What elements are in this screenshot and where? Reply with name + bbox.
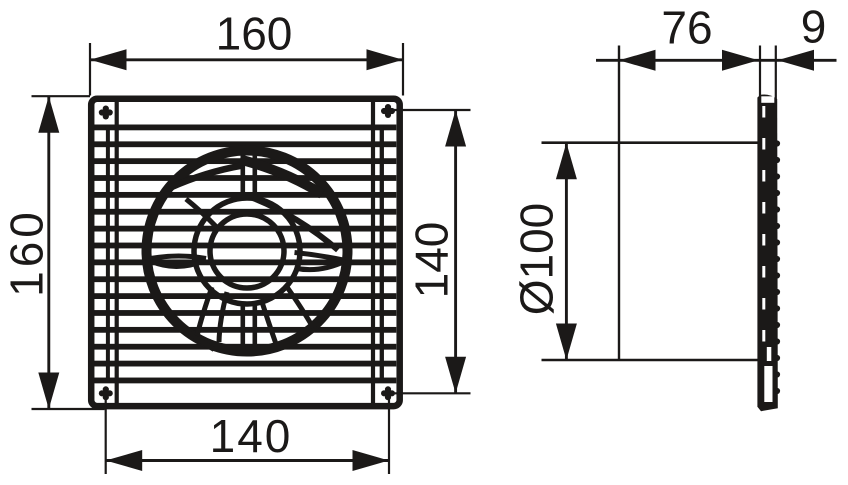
svg-text:160: 160 <box>216 8 293 60</box>
svg-text:Ø100: Ø100 <box>511 203 563 316</box>
svg-text:76: 76 <box>661 2 712 54</box>
svg-text:160: 160 <box>1 208 53 297</box>
svg-text:9: 9 <box>801 1 827 53</box>
svg-text:140: 140 <box>406 222 458 299</box>
svg-text:140: 140 <box>210 410 293 462</box>
